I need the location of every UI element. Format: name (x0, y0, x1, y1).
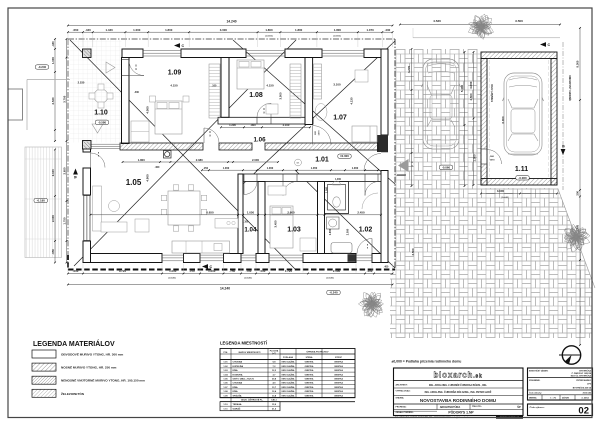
svg-text:1.000: 1.000 (223, 166, 230, 170)
svg-text:DÁTUM: DÁTUM (562, 397, 569, 400)
svg-text:STROP: STROP (335, 357, 343, 359)
svg-text:(2x600): (2x600) (265, 35, 272, 37)
svg-text:3.000: 3.000 (497, 189, 505, 193)
svg-text:1.000: 1.000 (335, 179, 341, 181)
svg-text:.950: .950 (51, 249, 55, 255)
svg-text:PROFESIA:: PROFESIA: (396, 406, 407, 409)
svg-text:2.500: 2.500 (333, 269, 341, 273)
svg-text:1970: 1970 (319, 130, 321, 136)
svg-text:.700: .700 (246, 269, 252, 273)
svg-text:KER. DLAŽBA: KER. DLAŽBA (282, 378, 295, 381)
svg-text:.400: .400 (155, 166, 160, 169)
svg-text:2.050: 2.050 (346, 228, 350, 235)
svg-text:1.000: 1.000 (51, 57, 55, 64)
svg-text:1.430: 1.430 (105, 28, 113, 32)
svg-text:8.300: 8.300 (576, 60, 580, 67)
svg-text:200: 200 (576, 190, 580, 195)
svg-text:3.000: 3.000 (279, 92, 283, 99)
svg-text:ČÍSLO ŽK.:: ČÍSLO ŽK.: (472, 405, 482, 408)
svg-text:KER. DLAŽBA: KER. DLAŽBA (282, 382, 295, 385)
svg-text:1.050: 1.050 (247, 211, 255, 215)
svg-text:3.720: 3.720 (119, 269, 127, 273)
svg-text:.660: .660 (73, 28, 79, 32)
svg-text:IZBA: IZBA (233, 390, 239, 393)
svg-text:5.400: 5.400 (460, 84, 464, 92)
svg-text:KER. DLAŽBA: KER. DLAŽBA (282, 386, 295, 389)
svg-text:OBÝV. IZBA + KUCH.: OBÝV. IZBA + KUCH. (233, 378, 255, 381)
svg-text:3_2014: 3_2014 (581, 397, 589, 400)
svg-text:2.530: 2.530 (78, 81, 85, 85)
svg-text:1.08: 1.08 (249, 92, 263, 99)
svg-text:2.380: 2.380 (196, 158, 203, 162)
svg-text:1.750: 1.750 (62, 217, 66, 224)
svg-text:4.900: 4.900 (146, 174, 150, 182)
svg-text:3.700: 3.700 (62, 95, 66, 102)
svg-text:4.000: 4.000 (146, 106, 150, 114)
svg-text:1.070: 1.070 (366, 28, 374, 32)
svg-text:1970: 1970 (490, 160, 496, 162)
svg-text:1.200: 1.200 (208, 269, 216, 273)
svg-text:-0.060: -0.060 (442, 165, 451, 169)
svg-text:6.000: 6.000 (501, 116, 505, 123)
svg-text:Č.M.: Č.M. (223, 351, 228, 354)
svg-text:2.600: 2.600 (287, 211, 295, 215)
svg-text:3.450: 3.450 (274, 220, 278, 227)
svg-text:-0.580: -0.580 (98, 120, 107, 124)
svg-text:NÁZOV MIESTNOSTI: NÁZOV MIESTNOSTI (239, 351, 261, 354)
svg-text:14.240: 14.240 (226, 20, 236, 24)
svg-text:4.530: 4.530 (433, 19, 441, 23)
svg-text:.430: .430 (134, 91, 139, 94)
svg-text:.400: .400 (367, 269, 373, 273)
svg-text:C: C (548, 43, 551, 47)
svg-text:4.130: 4.130 (350, 97, 354, 104)
svg-text:PLOCHA: PLOCHA (270, 350, 279, 353)
svg-text:OMIETKA: OMIETKA (305, 373, 314, 376)
svg-text:2.000: 2.000 (51, 215, 55, 222)
svg-text:OMIETKA: OMIETKA (305, 378, 314, 381)
svg-text:OMIETKA: OMIETKA (305, 390, 314, 393)
svg-text:VYPRACOVALI:: VYPRACOVALI: (396, 390, 411, 393)
svg-text:KER. DLAŽBA: KER. DLAŽBA (282, 369, 295, 372)
svg-text:4.150: 4.150 (170, 84, 178, 88)
svg-text:(2x640): (2x640) (326, 277, 333, 280)
svg-text:CHODBA: CHODBA (233, 382, 243, 385)
svg-text:1 : 75: 1 : 75 (550, 398, 556, 400)
svg-text:SPÁLŇA: SPÁLŇA (233, 394, 242, 397)
svg-text:4.500: 4.500 (469, 93, 473, 100)
svg-text:KER. DLAŽBA: KER. DLAŽBA (282, 365, 295, 368)
svg-text:-0.240: -0.240 (329, 291, 338, 295)
svg-text:1.800: 1.800 (265, 28, 273, 32)
svg-text:OMIETKA: OMIETKA (305, 361, 314, 364)
svg-text:1.000: 1.000 (133, 28, 141, 32)
svg-text:.430: .430 (51, 41, 55, 47)
svg-text:OMIETKA: OMIETKA (334, 386, 343, 389)
svg-text:2.450: 2.450 (357, 211, 365, 215)
svg-text:CHODBA: CHODBA (233, 361, 243, 364)
svg-text:IZBA: IZBA (233, 386, 239, 389)
svg-text:B: B (562, 145, 566, 148)
svg-text:1.02: 1.02 (359, 227, 373, 234)
svg-text:MIERKA: MIERKA (529, 397, 537, 400)
svg-text:.400: .400 (384, 266, 389, 269)
svg-text:KER. DLAŽBA: KER. DLAŽBA (282, 361, 295, 364)
svg-text:KER. DLAŽBA: KER. DLAŽBA (282, 394, 295, 397)
svg-text:1.07: 1.07 (333, 115, 347, 122)
svg-text:ING. ARCH./ING. ČUBORŇA DÖĽA/I: ING. ARCH./ING. ČUBORŇA DÖĽA/ING., ING. … (425, 391, 492, 394)
svg-text:-0.060: -0.060 (518, 176, 527, 180)
svg-text:C: C (210, 265, 213, 269)
svg-text:OMIETKA: OMIETKA (334, 373, 343, 376)
svg-text:STREŠNÝ ZVOD: STREŠNÝ ZVOD (491, 84, 494, 102)
svg-text:STAVEBNÍK:: STAVEBNÍK: (529, 379, 541, 382)
svg-text:±0.000: ±0.000 (340, 154, 349, 158)
svg-text:4.600: 4.600 (469, 81, 473, 89)
svg-text:NENOSNÉ VNÚTORNÉ MURIVO YTONG,: NENOSNÉ VNÚTORNÉ MURIVO YTONG, HR. 100,1… (61, 378, 145, 383)
svg-text:GARÁŽ: GARÁŽ (233, 408, 241, 411)
svg-text:OMIETKA: OMIETKA (334, 382, 343, 385)
svg-text:ŽELEZOBETÓN: ŽELEZOBETÓN (61, 391, 85, 396)
svg-text:LEGENDA MIESTNOSTÍ: LEGENDA MIESTNOSTÍ (220, 341, 268, 346)
svg-text:OMIETKA: OMIETKA (334, 378, 343, 381)
svg-text:OMIETKA: OMIETKA (305, 386, 314, 389)
svg-text:(2x640): (2x640) (168, 277, 175, 280)
svg-text:1.800: 1.800 (138, 158, 145, 162)
svg-text:4.770: 4.770 (407, 65, 411, 73)
svg-text:2.100: 2.100 (283, 123, 290, 127)
svg-text:14.240: 14.240 (220, 286, 230, 290)
svg-text:1.09: 1.09 (168, 70, 182, 77)
svg-text:1.06: 1.06 (253, 137, 266, 144)
svg-text:.660: .660 (73, 269, 79, 273)
svg-text:2.650: 2.650 (62, 167, 66, 174)
svg-text:B: B (73, 176, 77, 179)
svg-text:1.10: 1.10 (94, 110, 108, 117)
svg-text:3.000: 3.000 (220, 28, 228, 32)
svg-text:KOMORA: KOMORA (233, 373, 243, 376)
svg-text:(2x640): (2x640) (501, 196, 508, 199)
svg-text:INVESTIČNÝ ZÁMER:: INVESTIČNÝ ZÁMER: (529, 370, 549, 373)
svg-text:1.000: 1.000 (267, 166, 274, 170)
svg-text:-0.190: -0.190 (37, 199, 46, 203)
svg-text:OMIETKA: OMIETKA (305, 369, 314, 372)
svg-text:1.800: 1.800 (334, 28, 342, 32)
svg-text:KER. DLAŽBA: KER. DLAŽBA (282, 390, 295, 393)
svg-text:OMIETKA: OMIETKA (334, 361, 343, 364)
svg-text:IZBA: IZBA (233, 369, 239, 372)
svg-text:OMIETKA: OMIETKA (334, 394, 343, 397)
svg-text:1.720: 1.720 (285, 269, 293, 273)
svg-text:LEGENDA MATERIÁLOV: LEGENDA MATERIÁLOV (33, 339, 115, 348)
svg-text:1.05: 1.05 (126, 178, 142, 187)
svg-text:Číslo zákazky:: Číslo zákazky: (529, 392, 542, 395)
svg-text:2.530: 2.530 (51, 97, 55, 104)
svg-text:PODLAHA: PODLAHA (283, 356, 293, 359)
svg-text:.150: .150 (203, 166, 209, 170)
svg-text:1.650: 1.650 (328, 228, 332, 235)
svg-text:1.000: 1.000 (326, 186, 329, 193)
svg-text:1.11: 1.11 (515, 166, 528, 173)
svg-text:(2x600): (2x600) (333, 35, 340, 37)
svg-text:.430: .430 (85, 28, 91, 32)
svg-text:3.500: 3.500 (411, 248, 415, 255)
svg-text:3.100: 3.100 (333, 83, 341, 87)
svg-text:KÚPEĽŇA: KÚPEĽŇA (233, 365, 244, 368)
svg-text:OBVODOVÉ MURIVO YTONG, HR. 300: OBVODOVÉ MURIVO YTONG, HR. 300 mm (61, 352, 124, 357)
svg-text:KER. DLAŽBA: KER. DLAŽBA (282, 373, 295, 376)
svg-text:1.200: 1.200 (229, 123, 236, 127)
svg-text:ODKVAPOVÝ CHODNÍK: ODKVAPOVÝ CHODNÍK (568, 75, 571, 101)
svg-text:TERASA: TERASA (233, 403, 242, 406)
svg-text:1.300: 1.300 (473, 154, 477, 161)
svg-text:.100: .100 (212, 85, 217, 88)
svg-text:(m²): (m²) (272, 352, 276, 355)
svg-text:ING. ARCH./ING. ĽUBOMÍR ČUBORň: ING. ARCH./ING. ĽUBOMÍR ČUBORňA BÚĐ/S., … (429, 384, 487, 387)
svg-text:KAT. ÚZ. BYSTRIČKA: KAT. ÚZ. BYSTRIČKA (571, 374, 592, 377)
svg-text:PETER MAŠKO: PETER MAŠKO (576, 379, 591, 382)
svg-text:STENA: STENA (306, 356, 313, 359)
svg-text:OMIETKA: OMIETKA (334, 390, 343, 393)
svg-text:±0,000 = Podlaha prízemia rodi: ±0,000 = Podlaha prízemia rodinného domu (392, 360, 462, 364)
svg-text:1.000: 1.000 (169, 269, 177, 273)
svg-text:STAVBA:: STAVBA: (396, 397, 405, 400)
svg-text:ARCHITEKT:: ARCHITEKT: (396, 384, 408, 387)
svg-text:OMIETKA: OMIETKA (305, 382, 314, 385)
svg-text:.430: .430 (385, 28, 391, 32)
svg-text:1.350: 1.350 (311, 166, 318, 170)
svg-text:NOSNÉ MURIVO YTONG, HR. 250 mm: NOSNÉ MURIVO YTONG, HR. 250 mm (61, 365, 117, 370)
svg-text:2013.042: 2013.042 (583, 392, 592, 395)
svg-text:PÔDORYS 1.NP: PÔDORYS 1.NP (448, 410, 474, 415)
svg-text:.750: .750 (189, 269, 195, 273)
svg-text:3.500: 3.500 (515, 19, 523, 23)
svg-text:C: C (182, 44, 185, 48)
svg-text:1.04: 1.04 (244, 227, 257, 234)
svg-text:Číslo výkresu:: Číslo výkresu: (530, 406, 545, 409)
svg-text:-0.240: -0.240 (38, 65, 47, 69)
svg-text:6.650: 6.650 (206, 211, 214, 215)
svg-text:ĽPS: ĽPS (587, 384, 592, 386)
svg-text:.900: .900 (250, 123, 256, 127)
svg-text:2.100: 2.100 (51, 169, 55, 176)
svg-text:BYSTRIČKA 038 04: BYSTRIČKA 038 04 (573, 387, 592, 390)
svg-text:.750: .750 (229, 269, 235, 273)
svg-text:NOVOSTAVBA RODINNÉHO DOMU: NOVOSTAVBA RODINNÉHO DOMU (420, 396, 497, 403)
svg-text:OMIETKA: OMIETKA (334, 365, 343, 368)
svg-text:2.000: 2.000 (252, 158, 259, 162)
svg-text:.500: .500 (260, 269, 266, 273)
svg-text:1.01: 1.01 (315, 157, 329, 164)
svg-text:ÚPRAVA POVRCHOV: ÚPRAVA POVRCHOV (307, 350, 329, 353)
svg-text:4.150: 4.150 (266, 84, 274, 88)
svg-text:1.800: 1.800 (165, 28, 173, 32)
svg-text:OMIETKA: OMIETKA (334, 369, 343, 372)
svg-text:OMIETKA: OMIETKA (305, 365, 314, 368)
svg-text:OMIETKA: OMIETKA (305, 394, 314, 397)
svg-text:1.03: 1.03 (287, 227, 301, 234)
svg-text:(2x640): (2x640) (244, 277, 251, 280)
svg-text:1.000: 1.000 (352, 166, 359, 170)
svg-text:.100: .100 (244, 220, 249, 223)
svg-text:02: 02 (578, 406, 589, 417)
svg-text:1.800: 1.800 (295, 28, 303, 32)
